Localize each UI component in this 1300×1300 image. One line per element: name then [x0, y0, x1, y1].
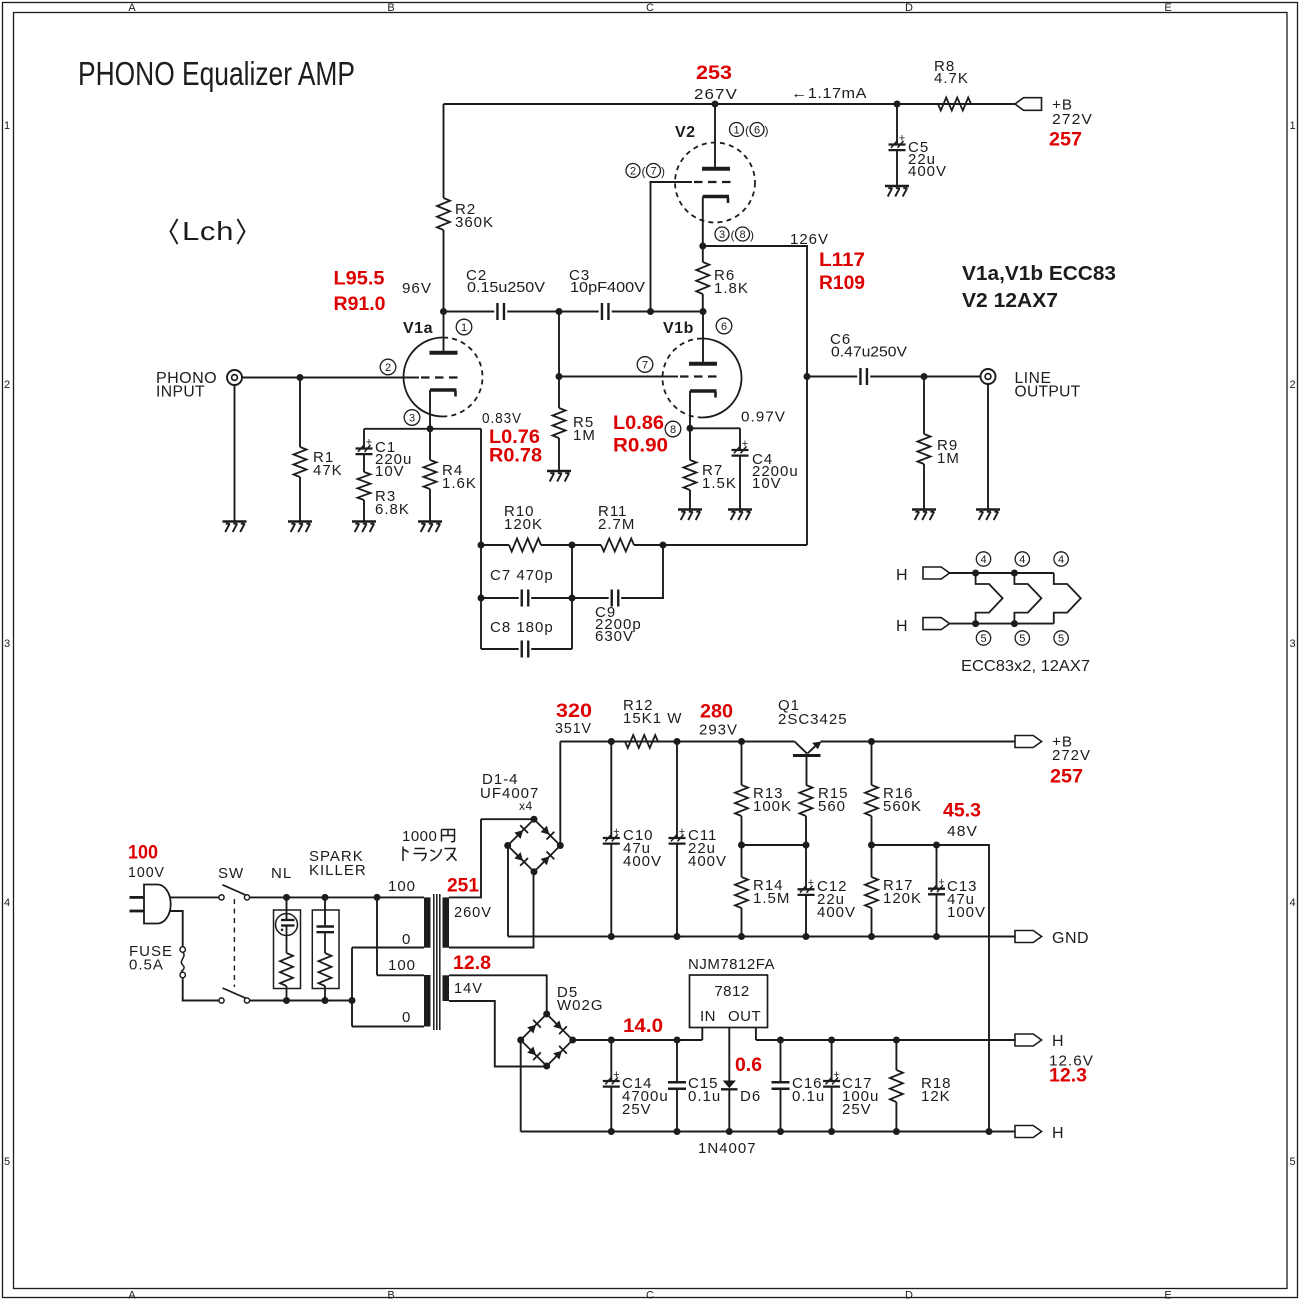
svg-text:293V: 293V [699, 722, 738, 739]
connector +B PSU [1015, 736, 1042, 748]
svg-text:47K: 47K [313, 462, 343, 479]
svg-text:W02G: W02G [557, 997, 604, 1014]
node R9 [921, 373, 928, 380]
ground under R5 [547, 470, 571, 473]
svg-text:10pF400V: 10pF400V [570, 279, 645, 296]
wire +B top rail [444, 103, 1016, 105]
svg-text:L117: L117 [819, 249, 865, 271]
svg-text:14V: 14V [454, 980, 483, 997]
capacitor C8 [481, 648, 519, 650]
svg-text:267V: 267V [694, 86, 738, 103]
svg-text:B: B [387, 2, 394, 14]
svg-text:1N4007: 1N4007 [698, 1140, 757, 1157]
svg-text:D: D [905, 2, 913, 14]
switch gang dashes [233, 899, 235, 987]
svg-text:OUT: OUT [728, 1008, 761, 1025]
resistor R16 [871, 742, 873, 786]
connector +B (amp) [1015, 98, 1042, 111]
svg-text:100: 100 [388, 878, 416, 895]
svg-text:H: H [1052, 1033, 1064, 1050]
capacitor C15 [676, 1040, 678, 1082]
svg-text:126V: 126V [790, 231, 829, 248]
svg-text:H: H [896, 567, 908, 584]
svg-text:25V: 25V [622, 1101, 652, 1118]
svg-text:C7 470p: C7 470p [490, 567, 554, 584]
spark killer resistor [319, 953, 332, 986]
svg-text:(: ( [731, 228, 735, 242]
node 267V [712, 101, 719, 108]
svg-text:100V: 100V [947, 904, 986, 921]
svg-text:A: A [128, 1290, 136, 1300]
svg-text:4: 4 [980, 554, 986, 566]
svg-text:+: + [613, 826, 619, 838]
svg-text:R0.78: R0.78 [489, 445, 542, 467]
wire plug bottom to fuse [170, 911, 183, 947]
svg-text:4.7K: 4.7K [934, 70, 969, 87]
node V1b plate [700, 308, 707, 315]
resistor R17 [871, 845, 873, 877]
svg-text:3: 3 [1289, 638, 1295, 650]
svg-text:25V: 25V [842, 1101, 872, 1118]
svg-text:+: + [679, 826, 685, 838]
secondary 14V bar [443, 975, 450, 1001]
svg-text:7: 7 [650, 165, 656, 177]
capacitor C1 [363, 429, 365, 449]
svg-text:PHONO Equalizer AMP: PHONO Equalizer AMP [78, 55, 355, 92]
svg-text:NL: NL [271, 865, 292, 882]
heater bottom rail [521, 1131, 1015, 1133]
svg-text:0.6: 0.6 [735, 1054, 762, 1076]
svg-text:360K: 360K [455, 214, 494, 231]
resistor R5 [553, 408, 566, 438]
svg-text:5: 5 [1289, 1156, 1295, 1168]
svg-text:7812: 7812 [714, 983, 749, 1000]
svg-text:H: H [896, 618, 908, 635]
jack stem ground [234, 385, 236, 522]
wire fuse to SW bottom [183, 978, 219, 1001]
svg-text:6: 6 [721, 321, 727, 333]
wire feedback left leg [480, 429, 482, 649]
svg-text:V1a: V1a [403, 320, 433, 337]
wire R5 branch [558, 312, 560, 409]
triode V1a [404, 338, 444, 417]
svg-text:1.6K: 1.6K [442, 475, 477, 492]
pins 3(8) label [715, 227, 729, 241]
capacitor C10 [610, 742, 612, 839]
pin 4 labels [976, 552, 990, 566]
svg-text:351V: 351V [555, 720, 592, 737]
svg-text:0.97V: 0.97V [741, 409, 786, 426]
svg-text:5: 5 [4, 1156, 10, 1168]
neon lamp [276, 914, 298, 936]
capacitor C2 [496, 303, 498, 320]
wire V2 grid [651, 182, 693, 312]
wire SW to transformer top [250, 896, 424, 898]
resistor R2 [443, 104, 445, 198]
capacitor C9 [572, 597, 609, 599]
NL resistor [280, 953, 293, 986]
svg-text:H: H [1052, 1125, 1064, 1142]
svg-text:V2: V2 [675, 124, 696, 141]
svg-text:251: 251 [447, 875, 479, 897]
connector H top [923, 567, 950, 579]
bridge D5 wires [520, 1040, 522, 1132]
svg-text:+: + [938, 877, 944, 889]
svg-text:257: 257 [1050, 766, 1083, 788]
capacitor C4 [739, 428, 741, 450]
svg-text:+: + [808, 877, 814, 889]
connector H return [1015, 1126, 1042, 1138]
node V1b grid tee [556, 373, 563, 380]
wire cathode to feedback [703, 246, 807, 545]
ground under C4 [728, 508, 752, 511]
resistor R6 [702, 246, 704, 262]
pin 1 label [456, 319, 472, 335]
wire input to grid [242, 377, 419, 379]
svg-text:8: 8 [670, 424, 676, 436]
wire cathode to C4 [690, 427, 740, 429]
jack LINE OUTPUT [981, 369, 996, 384]
wire plate to C2 [444, 311, 495, 313]
pin 7 label [637, 357, 653, 373]
svg-text:1.8K: 1.8K [714, 280, 749, 297]
kanji yen [442, 830, 455, 842]
pin 8 label [665, 421, 681, 437]
svg-text:4: 4 [1019, 554, 1025, 566]
secondary 260V wires [449, 819, 481, 897]
capacitor C17 [831, 1040, 833, 1081]
triode V2 [675, 143, 755, 223]
capacitor C7 [481, 597, 519, 599]
ground under R9 [912, 508, 936, 511]
resistor R12 [625, 735, 658, 748]
svg-text:R91.0: R91.0 [334, 293, 386, 315]
primary winding 1 bar [424, 897, 431, 947]
svg-text:L95.5: L95.5 [334, 268, 385, 290]
wire grid V1b [559, 376, 678, 378]
wire cathode row [364, 428, 481, 430]
svg-text:253: 253 [696, 62, 732, 84]
svg-text:3: 3 [719, 229, 725, 241]
ground under R7 [678, 508, 702, 511]
svg-text:7: 7 [642, 359, 648, 371]
IC NJM7812FA [690, 975, 768, 1028]
pin 2 label [380, 359, 396, 375]
secondary 14V wires [449, 975, 547, 1013]
svg-text:4: 4 [1289, 897, 1295, 909]
svg-text:1: 1 [733, 124, 739, 136]
svg-text:0.1u: 0.1u [688, 1088, 721, 1105]
heater 1 [976, 573, 1003, 624]
svg-text:10V: 10V [752, 475, 782, 492]
svg-text:D6: D6 [740, 1088, 761, 1105]
svg-text:(: ( [745, 124, 749, 138]
svg-text:): ) [765, 124, 769, 138]
bridge rectifier D1-4 [508, 819, 534, 845]
node V1a plate 96V [440, 308, 447, 315]
wire SW to transformer bottom [250, 1000, 352, 1002]
node input [297, 374, 304, 381]
svg-text:4: 4 [1058, 554, 1064, 566]
ground under R4 [418, 520, 442, 523]
node mid top [569, 542, 576, 549]
svg-text:1M: 1M [573, 427, 596, 444]
wire 14V rail to 7812 [573, 1039, 703, 1041]
wire mid leg [571, 545, 573, 649]
svg-text:45.3: 45.3 [943, 800, 981, 822]
svg-text:KILLER: KILLER [309, 862, 367, 879]
svg-text:0.5A: 0.5A [129, 957, 164, 974]
resistor R8 [938, 98, 971, 111]
wire +B rail PSU [560, 741, 794, 743]
svg-text:(: ( [642, 165, 646, 179]
svg-text:5: 5 [1058, 633, 1064, 645]
svg-text:E: E [1164, 2, 1171, 14]
svg-text:): ) [750, 228, 754, 242]
pin 5 labels [976, 631, 990, 645]
svg-text:630V: 630V [595, 628, 634, 645]
ground under C5 [885, 185, 909, 188]
resistor R7 [689, 428, 691, 460]
svg-text:SW: SW [218, 865, 244, 882]
svg-text:272V: 272V [1052, 747, 1091, 764]
heater rail top [976, 572, 1054, 574]
ground under R3 [352, 520, 376, 523]
node V2 cathode [699, 243, 706, 250]
svg-text:NJM7812FA: NJM7812FA [688, 956, 775, 973]
svg-text:15K1 W: 15K1 W [623, 710, 682, 727]
resistor R4 [429, 429, 431, 460]
svg-text:0: 0 [402, 931, 411, 948]
capacitor C16 [780, 1040, 782, 1082]
svg-text:+: + [833, 1069, 839, 1081]
resistor R18 [895, 1040, 897, 1070]
svg-text:V1b: V1b [663, 320, 694, 337]
connector GND [1015, 931, 1042, 943]
svg-text:12.3: 12.3 [1049, 1065, 1087, 1087]
Lch label [171, 219, 178, 244]
svg-text:400V: 400V [688, 853, 727, 870]
svg-text:1.5M: 1.5M [753, 890, 790, 907]
svg-text:2: 2 [4, 379, 10, 391]
resistor R10 [481, 544, 509, 546]
7812 gnd pin diode D6 [728, 1028, 730, 1081]
svg-text:100: 100 [388, 957, 416, 974]
primary winding 2 bar [424, 975, 431, 1027]
secondary 260V bar [443, 897, 450, 947]
svg-text:0.83V: 0.83V [482, 410, 522, 427]
capacitor C14 [610, 1040, 612, 1081]
svg-text:Lch: Lch [182, 216, 234, 246]
svg-text:x4: x4 [519, 799, 533, 813]
svg-text:1.5K: 1.5K [702, 475, 737, 492]
svg-text:5: 5 [980, 633, 986, 645]
svg-text:120K: 120K [504, 516, 543, 533]
spark killer box [312, 910, 339, 989]
connector H bottom [923, 618, 950, 630]
svg-text:4: 4 [4, 897, 10, 909]
capacitor C3 [601, 303, 603, 320]
ground under R1 [288, 520, 312, 523]
svg-text:8: 8 [739, 229, 745, 241]
svg-text:320: 320 [556, 700, 592, 722]
svg-text:GND: GND [1052, 930, 1089, 947]
svg-text:+: + [366, 436, 372, 448]
7812 pins [701, 1028, 703, 1041]
capacitor C13 [936, 845, 938, 889]
svg-text:10V: 10V [375, 463, 405, 480]
svg-text:48V: 48V [947, 823, 978, 840]
bridge rectifier D5 [521, 1014, 547, 1040]
svg-text:5: 5 [1019, 633, 1025, 645]
capacitor C12 [805, 845, 807, 889]
node right top [660, 542, 667, 549]
neon lamp NL box [274, 910, 301, 989]
node R5 top [556, 308, 563, 315]
svg-text:100: 100 [128, 842, 158, 864]
svg-text:2: 2 [385, 362, 391, 374]
svg-text:100K: 100K [753, 798, 792, 815]
svg-text:400V: 400V [817, 904, 856, 921]
svg-text:14.0: 14.0 [623, 1015, 663, 1037]
svg-text:120K: 120K [883, 890, 922, 907]
svg-text:L0.86: L0.86 [613, 412, 664, 434]
svg-text:IN: IN [700, 1008, 716, 1025]
svg-text:400V: 400V [908, 163, 947, 180]
svg-text:R109: R109 [819, 272, 865, 294]
pin 3 label [404, 410, 420, 426]
svg-text:100V: 100V [128, 864, 165, 881]
svg-text:): ) [661, 165, 665, 179]
svg-text:0: 0 [402, 1009, 411, 1026]
GND rail [508, 936, 1015, 938]
svg-text:0.1u: 0.1u [792, 1088, 825, 1105]
svg-text:2: 2 [630, 165, 636, 177]
svg-text:280: 280 [700, 701, 733, 723]
wire R13 R15 row [742, 844, 807, 846]
svg-text:12K: 12K [921, 1088, 951, 1105]
resistor R3 [358, 472, 371, 500]
capacitor C5 [896, 104, 898, 145]
resistor R1 [299, 378, 301, 448]
svg-text:96V: 96V [402, 280, 432, 297]
jack stem ground [987, 384, 989, 510]
svg-text:V2 12AX7: V2 12AX7 [962, 290, 1058, 312]
svg-text:3: 3 [409, 412, 415, 424]
svg-text:R0.90: R0.90 [613, 435, 668, 457]
svg-text:6.8K: 6.8K [375, 501, 410, 518]
wire R16 R17 row 48V [872, 845, 990, 1132]
svg-text:0.15u250V: 0.15u250V [467, 279, 545, 296]
connector H 12.6V [1015, 1034, 1042, 1046]
svg-text:560: 560 [818, 798, 846, 815]
capacitor C11 [676, 742, 678, 839]
svg-text:C8 180p: C8 180p [490, 619, 554, 636]
svg-text:V1a,V1b ECC83: V1a,V1b ECC83 [962, 263, 1116, 285]
svg-text:1M: 1M [937, 450, 960, 467]
svg-text:260V: 260V [454, 904, 492, 921]
svg-text:←1.17mA: ←1.17mA [791, 85, 867, 102]
resistor R15 [800, 785, 813, 816]
svg-text:C: C [646, 1290, 654, 1300]
svg-text:OUTPUT: OUTPUT [1015, 384, 1081, 401]
node V1b cathode [687, 425, 694, 432]
svg-text:B: B [387, 1290, 394, 1300]
bridge D1-4 wires [481, 818, 534, 820]
fuse FUSE 0.5A [180, 947, 185, 952]
spark killer cap [324, 897, 326, 925]
pins 1(6) label [730, 123, 744, 137]
heater rail bottom [976, 623, 1054, 625]
svg-text:257: 257 [1049, 129, 1082, 151]
svg-text:0.47u250V: 0.47u250V [831, 344, 907, 361]
svg-text:C: C [646, 2, 654, 14]
svg-text:12.8: 12.8 [453, 952, 491, 974]
svg-text:A: A [128, 2, 136, 14]
svg-text:E: E [1164, 1290, 1171, 1300]
svg-text:400V: 400V [623, 853, 662, 870]
svg-text:+: + [613, 1069, 619, 1081]
resistor R14 [741, 845, 743, 877]
wire plug top to SW [170, 896, 219, 898]
svg-text:560K: 560K [883, 798, 922, 815]
svg-text:D: D [905, 1290, 913, 1300]
core lines [433, 894, 435, 1030]
svg-text:2: 2 [1289, 379, 1295, 391]
resistor R13 [741, 742, 743, 786]
svg-text:INPUT: INPUT [156, 384, 205, 401]
AC plug [144, 885, 171, 924]
svg-text:ECC83x2, 12AX7: ECC83x2, 12AX7 [961, 658, 1090, 675]
svg-text:6: 6 [754, 124, 760, 136]
svg-text:1: 1 [461, 322, 467, 334]
svg-text:2SC3425: 2SC3425 [778, 711, 848, 728]
svg-text:1: 1 [4, 120, 10, 132]
wire emitter rail to +B tag [821, 741, 1016, 743]
node V2 grid tap [647, 308, 654, 315]
svg-text:+: + [742, 438, 748, 450]
svg-text:3: 3 [4, 638, 10, 650]
katakana toransu [403, 847, 409, 862]
pins 2(7) label [626, 164, 640, 178]
svg-text:1: 1 [1289, 120, 1295, 132]
wire C2 to C3 [507, 311, 599, 313]
svg-text:1000: 1000 [402, 828, 437, 845]
transistor Q1 2SC3425 [795, 742, 808, 754]
svg-text:2.7M: 2.7M [598, 516, 635, 533]
svg-text:272V: 272V [1052, 111, 1093, 128]
triode V1b [663, 339, 703, 418]
capacitor C6 [807, 376, 857, 378]
resistor R9 [923, 377, 925, 435]
wire C3 to V1b plate [612, 311, 703, 313]
svg-text:+: + [899, 132, 905, 144]
pin 6 label [716, 318, 732, 334]
resistor R11 [572, 544, 601, 546]
jack PHONO INPUT [227, 370, 242, 385]
